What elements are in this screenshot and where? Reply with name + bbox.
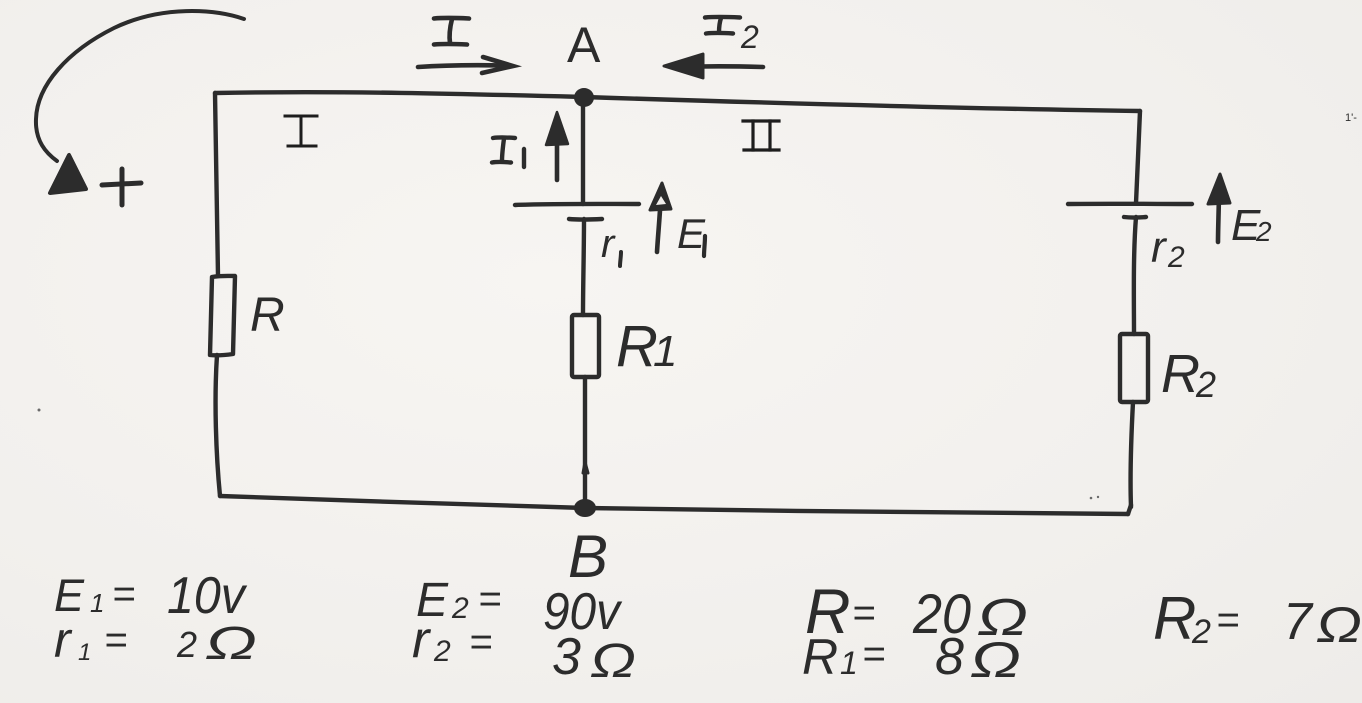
wire resistor R1 to node B [583,377,587,505]
node B junction dot [574,499,596,517]
value line r2 = 3 ohm [412,611,636,688]
value line R2 = 7 ohm [1153,585,1362,653]
svg-text:=: = [478,577,501,621]
svg-text:1: 1 [78,639,91,666]
svg-text:2: 2 [451,592,469,625]
svg-text:2: 2 [176,624,197,665]
plus sign [102,169,141,205]
wire left vertical (resistor R to bottom corner) [216,355,220,496]
svg-text:3: 3 [552,628,581,686]
resistor R body [210,276,235,355]
wire bottom right (node B to right corner) [585,508,1128,514]
label I1 [492,137,524,167]
node A junction dot [574,88,594,107]
svg-text:R: R [802,629,838,685]
small arrow tick on wire above node B [583,462,588,473]
current arrow I1 (middle, pointing up) [555,128,560,180]
svg-text:1'-: 1'- [1345,112,1357,124]
wire left vertical (top corner to resistor R) [215,93,218,276]
svg-text:Ω: Ω [590,635,636,688]
svg-text:=: = [104,618,127,662]
svg-text:r: r [601,222,616,266]
label I2 [705,17,740,34]
svg-text:2: 2 [1167,241,1185,274]
resistor R2 body [1120,334,1148,402]
wire r1 to resistor R1 [583,219,584,315]
svg-text:R: R [616,314,658,379]
wire middle (node A to battery r1) [581,97,585,204]
svg-text:1: 1 [840,645,858,681]
battery r1 short plate [569,217,602,222]
svg-text:1: 1 [90,588,104,618]
loop label roman numeral I [285,116,317,146]
svg-text:Ω: Ω [205,617,257,669]
svg-text:r: r [1151,223,1168,272]
svg-text:R: R [1153,585,1196,652]
svg-text:=: = [1216,598,1239,642]
svg-text:A: A [567,17,601,73]
svg-text:r: r [412,611,432,669]
wire resistor R2 to bottom corner [1131,402,1133,507]
svg-text:R: R [250,289,285,342]
value line E2 = 90v [416,574,623,641]
value line R1 = 8 ohm [802,628,1021,688]
svg-text:1: 1 [653,327,677,376]
svg-text:E: E [677,210,706,257]
EMF arrow E1 (pointing up) [657,193,661,252]
svg-text:2: 2 [740,19,759,55]
svg-text:7: 7 [1283,593,1314,651]
curved arrow top-left [36,11,244,161]
resistor R1 body [572,315,599,377]
svg-text:2: 2 [1255,216,1272,247]
svg-text:2: 2 [1191,613,1211,651]
svg-text:r: r [54,612,73,668]
svg-text:2: 2 [1195,364,1216,405]
svg-text:2: 2 [433,635,451,668]
value line R = 20 ohm [805,577,1028,647]
value line E1 = 10v [54,567,248,625]
svg-text:=: = [469,620,492,664]
current arrow I2 (top right, pointing left) [700,64,763,69]
svg-text:R: R [1161,344,1200,404]
stray specks near bottom right corner [1090,497,1093,500]
svg-text:8: 8 [935,628,964,686]
EMF arrow E2 (pointing up) [1218,188,1219,242]
stray speck left [38,409,41,412]
wire top left (corner to node A) [215,92,584,97]
wire bottom right corner stub [1128,505,1131,514]
wire bottom left (corner to node B) [220,496,585,508]
svg-text:Ω: Ω [970,632,1021,688]
svg-text:=: = [112,572,135,616]
svg-text:=: = [862,632,885,676]
battery r1 long plate [515,204,639,205]
wire top right (node A to right corner) [584,97,1140,111]
label I (hand-drawn with serifs) [434,18,469,45]
svg-text:Ω: Ω [1316,597,1362,653]
value line r1 = 2 ohm [54,612,257,669]
svg-text:B: B [568,523,608,590]
battery r2 short plate [1124,215,1146,220]
curved arrow filled head [50,155,86,193]
wire r2 to resistor R2 [1134,217,1136,334]
svg-text:=: = [852,591,875,635]
battery r2 long plate [1068,202,1192,207]
loop label roman numeral II [743,121,779,150]
wire right vertical (top corner to battery r2) [1136,111,1140,203]
current arrow I (top left, pointing right) [418,57,513,73]
